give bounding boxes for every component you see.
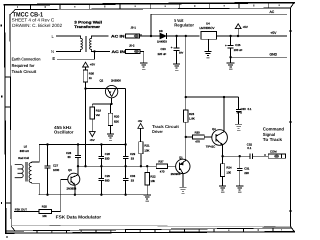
node junction C31 [239,155,241,157]
capacitor C31 [237,156,243,185]
svg-text:R22: R22 [150,174,156,178]
net AC riser [150,14,152,36]
ground R24 [219,186,226,190]
svg-text:R20: R20 [114,115,120,119]
oscillator top rail [39,144,126,146]
resistor R19 variable [90,107,94,119]
main oscillator row wire [78,165,156,167]
border ruler ticks top [30,3,268,10]
svg-text:Transformer: Transformer [74,25,100,29]
svg-text:10k: 10k [42,214,47,218]
svg-text:+5V: +5V [90,138,95,142]
inductor L6 top lead [32,145,40,163]
svg-text:Regulator: Regulator [174,23,194,28]
wire L to transformer [57,35,81,37]
wire Q3 emitter [74,185,76,195]
node junction C25 bottom [100,194,102,196]
inductor L6 bottom lead [32,183,40,195]
wire N to transformer [57,50,81,52]
svg-text:AC IN: AC IN [111,34,125,38]
border side ticks [5,31,292,211]
svg-text:Q2: Q2 [100,79,104,83]
diode D8 [160,33,166,39]
resistor R25 [39,210,52,214]
svg-text:100: 100 [226,170,231,174]
wire Q3 base [61,179,68,181]
power symbol +5V arrow at R21 [138,123,144,141]
ground C25 / rail [227,63,235,67]
border zone letter specks top [17,5,280,8]
wire Q1 emitter to ground [182,174,184,187]
ground Q1 [179,187,186,191]
svg-text:33: 33 [68,155,72,159]
svg-text:U4: U4 [206,21,210,25]
node junction secondary bottom / earth [93,50,95,52]
ground R20 [107,134,114,138]
node junction R30 branch [185,136,187,138]
svg-text:+5v: +5v [138,119,143,123]
svg-text:C29: C29 [130,152,136,156]
node junction C25 [229,35,231,37]
svg-text:C30: C30 [241,107,247,111]
svg-text:10K: 10K [144,148,149,152]
node junction GND rail [229,56,231,58]
node junction AC riser [150,35,152,37]
svg-text:R23: R23 [189,112,195,116]
node junction C27 top [46,143,48,145]
U4 ground pin [208,39,210,51]
ground C23 [173,64,180,68]
resistor R24 [222,156,224,164]
node junction C23 [175,35,177,37]
wire D8 to U4 [167,35,200,37]
wire Q4 emitter down [222,145,224,156]
node junction Q2 base [84,87,86,89]
svg-text:C27: C27 [53,163,59,167]
svg-text:R19: R19 [96,108,102,112]
power symbol +5V top arrow [235,24,241,36]
resistor R22 [146,166,148,172]
resistor R36 [83,70,87,82]
wire E [58,51,95,59]
transistor Q3 [68,173,80,185]
svg-text:LM7805CV: LM7805CV [200,26,215,30]
wire R21 to row [140,154,142,166]
svg-text:+: + [225,44,227,48]
svg-text:Var: Var [96,113,100,117]
oscillator bottom rail [39,194,148,196]
wire C32 to COM connector [253,155,269,157]
transformer T1 secondary winding [90,36,92,51]
svg-text:C23: C23 [161,47,167,51]
svg-text:C31: C31 [244,166,250,170]
svg-text:L6: L6 [24,145,28,149]
svg-text:J5-2: J5-2 [129,44,135,48]
node junction Q2 column end [124,143,126,145]
wire Q2 right lead down [125,89,127,145]
capacitor C29 [123,145,129,167]
ground C30 [235,124,242,128]
transistor Q2 [105,85,125,104]
svg-text:D8: D8 [159,29,163,33]
transistor Q4 [212,130,228,146]
svg-text:Required for: Required for [12,63,35,68]
resistor R23 [184,110,188,122]
border ruler ticks bottom [37,228,273,233]
svg-text:DRAWN: C. Bickel 2002: DRAWN: C. Bickel 2002 [12,23,62,28]
wire base node to Q2 [86,88,107,90]
wire base node down long vertical [85,89,87,167]
node junction C33 bottom [124,194,126,196]
wire R22 to rail end [146,185,148,195]
resistor R30 [186,136,193,138]
svg-text:1.8K: 1.8K [189,117,195,121]
svg-text:3 Prong Wall: 3 Prong Wall [74,20,102,24]
svg-text:+5V: +5V [270,31,277,35]
scan speck bottom edge [6,236,8,237]
wire emitter row to C32 [223,155,250,157]
node junction Q4 collector [223,96,225,98]
capacitor C28 [75,145,81,167]
svg-text:100 uF: 100 uF [234,48,243,52]
node junction C26 top [100,143,102,145]
capacitor C30 [236,97,242,124]
svg-text:330: 330 [105,156,110,160]
svg-text:Oscillator: Oscillator [54,130,74,135]
svg-text:R36: R36 [89,71,95,75]
ground U4 [204,51,211,55]
svg-text:Driver: Driver [152,129,163,134]
svg-text:FSK Data Modulator: FSK Data Modulator [56,215,102,220]
node junction C29-C33 mid [124,165,126,167]
node junction R22 top [146,165,148,167]
svg-text:Rad Coil: Rad Coil [18,156,29,160]
node junction Q4 emitter row [221,155,223,157]
border zone letter specks bottom [21,229,282,233]
ground C31 [236,186,243,190]
svg-text:470: 470 [160,169,165,173]
wire Q3 collector [77,166,79,175]
svg-text:To Track: To Track [263,137,283,142]
svg-text:E: E [52,56,55,61]
wire R20 to ground [110,126,112,134]
connector J5-2 [126,50,140,54]
node junction base column [84,165,86,167]
node junction C26-C25 mid [100,165,102,167]
svg-text:Earth Connection: Earth Connection [12,57,41,62]
inductor L6 left winding [15,165,23,178]
svg-text:R25: R25 [42,205,48,209]
capacitor C23 [174,36,180,64]
svg-text:1N4003: 1N4003 [157,40,167,44]
svg-text:GND: GND [270,52,278,56]
node junction C28 bottom [77,165,79,167]
node junction Q3 emitter [74,194,76,196]
svg-text:J5-1: J5-1 [131,26,137,30]
svg-text:33: 33 [131,179,135,183]
svg-text:C25: C25 [235,43,241,47]
power symbol +5V arrow at R36 [83,62,89,70]
svg-text:Track Circuit: Track Circuit [12,69,37,74]
svg-text:SHEET 4 of 4 Rev C: SHEET 4 of 4 Rev C [12,18,55,23]
svg-text:10k: 10k [150,179,155,183]
svg-text:82K: 82K [114,119,119,123]
transformer T1 primary winding [81,36,83,51]
net GND rail [231,56,287,58]
connector J5-1 [126,34,142,38]
capacitor C27 [45,145,51,195]
node junction C27 bottom [46,194,48,196]
svg-text:0.1: 0.1 [248,107,252,111]
capacitor C26 [99,145,105,167]
ground J5-2 [140,63,147,67]
capacitor C32 [250,153,253,159]
wire Q4 collector [223,97,225,132]
svg-text:50V: 50V [179,52,184,55]
svg-text:220: 220 [244,171,249,175]
svg-text:+5V: +5V [90,63,95,67]
node junction R23 branch [185,35,187,37]
capacitor C25 regulator output [228,36,234,57]
resistor R20 [110,104,112,113]
svg-text:C25: C25 [105,174,111,178]
svg-text:N: N [51,49,54,54]
svg-text:Command: Command [263,127,285,132]
svg-text:TIP41C: TIP41C [206,145,215,149]
wire C25 ground stub [230,57,232,63]
svg-text:33: 33 [131,156,135,160]
inductor L6 right winding [29,162,31,183]
node junction C28 top [77,143,79,145]
svg-text:R21: R21 [144,143,150,147]
svg-text:680: 680 [105,179,110,183]
regulator U4 [201,31,217,39]
wire U4 output +5V rail [217,35,287,37]
svg-text:R24: R24 [226,166,232,170]
wire R36 to base node [85,82,87,89]
wire R25 to FSK column [52,210,61,212]
resistor R21 [139,142,143,154]
wire y97 to C30 [186,96,239,98]
wire J5-2 out to ground [140,51,144,62]
transformer T1 core [84,36,86,51]
svg-text:470: 470 [195,139,200,143]
wire FSK column [60,180,62,212]
capacitor C33 [123,166,129,195]
scan speck left edge 1 [0,24,1,26]
node junction R21 bottom [140,165,142,167]
svg-text:R37: R37 [158,159,164,163]
svg-text:0.1: 0.1 [247,146,251,150]
ground R22 rail [144,195,151,199]
node junction Q2 bottom [110,103,112,105]
wire R24 to ground [222,176,224,185]
svg-text:+5V: +5V [243,25,248,29]
scan speck left edge 3 [1,202,2,204]
svg-text:AC: AC [270,10,275,14]
svg-text:C26: C26 [105,152,111,156]
transistor Q1 [176,159,190,173]
connector COM [268,154,285,158]
net AC line to right edge [151,13,287,15]
vertical from +5V rail to R23 [185,36,187,110]
wire J5-1 to node [140,35,161,37]
svg-text:R30: R30 [195,131,201,135]
wire jog to R19 [92,103,111,105]
svg-text:830 uH: 830 uH [20,149,29,153]
svg-text:NPO: NPO [237,112,242,115]
scan speck left edge 2 [1,96,2,98]
wire transformer secondary bottom to AC IN [92,50,110,52]
wire R23 down to Q1 [185,122,187,160]
capacitor C25 osc [99,166,105,195]
wire transformer secondary top to AC IN [92,35,109,37]
svg-text:COM: COM [270,149,277,153]
svg-text:AC IN: AC IN [112,50,126,54]
node junction y97 wire [185,96,187,98]
inductor L6 core [24,162,26,182]
wire FSK OUT to R25 [14,210,39,212]
resistor R37 [156,164,167,169]
svg-text:220 uF: 220 uF [158,52,167,56]
svg-text:Q3: Q3 [68,168,72,172]
svg-text:2N3906: 2N3906 [111,79,121,83]
svg-text:1000: 1000 [53,168,60,172]
svg-text:+: + [171,45,173,49]
power symbol +5V down arrow [89,132,95,137]
node junction +5V arrow [237,35,239,37]
wire R19 to +5V down arrow [91,119,93,127]
svg-text:C33: C33 [130,174,136,178]
